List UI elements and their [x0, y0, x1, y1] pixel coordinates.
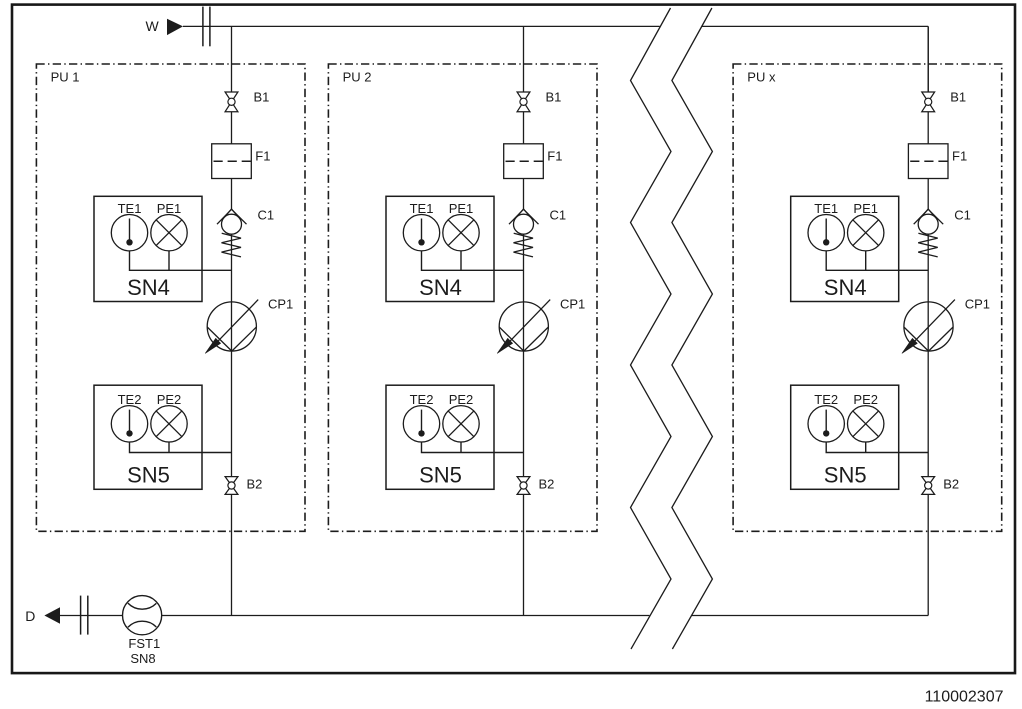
label SN4 (PU x) [824, 275, 867, 300]
svg-text:SN5: SN5 [419, 463, 462, 488]
svg-text:F1: F1 [547, 148, 562, 163]
inlet arrow W [167, 19, 183, 35]
PU 1 main vertical pipe [231, 26, 233, 615]
label B2 (PU 1) [247, 476, 263, 491]
pipe continuation marks at D outlet [81, 596, 88, 635]
unit PU 2 boundary (dash-dot box) [328, 64, 597, 531]
pipeline break zigzag line (left) [631, 8, 672, 649]
SN5 gauge connection wires (PU 1) [130, 442, 232, 453]
label SN8 [130, 651, 155, 666]
svg-text:C1: C1 [258, 208, 275, 223]
svg-text:FST1: FST1 [128, 636, 160, 651]
valve B2 (PU x) [922, 477, 935, 495]
svg-text:B2: B2 [943, 476, 959, 491]
svg-text:B1: B1 [950, 90, 966, 105]
svg-text:D: D [25, 608, 35, 624]
svg-text:TE1: TE1 [118, 201, 142, 216]
label B2 (PU 2) [539, 476, 555, 491]
label B2 (PU x) [943, 476, 959, 491]
thermometer TE2 (PU x) [808, 406, 844, 442]
PU x main vertical pipe [927, 26, 929, 615]
filter F1 (PU 1) [212, 144, 252, 179]
svg-text:TE2: TE2 [410, 392, 434, 407]
instrument box SN4 (PU 1) [94, 196, 202, 301]
pressure gauge PE2 (PU 2) [443, 406, 479, 442]
SN4 gauge connection wires (PU x) [826, 251, 928, 270]
valve B1 (PU 1) [225, 92, 238, 112]
inlet label W [146, 18, 160, 34]
pressure gauge PE2 (PU 1) [151, 406, 187, 442]
svg-text:B1: B1 [254, 90, 270, 105]
svg-text:TE2: TE2 [814, 392, 838, 407]
svg-text:SN5: SN5 [824, 463, 867, 488]
label PU 1 [51, 69, 80, 84]
pump CP1 (PU x) [902, 300, 955, 354]
svg-text:PE1: PE1 [853, 201, 878, 216]
label SN5 (PU 1) [127, 463, 170, 488]
label PE1 (PU 1) [157, 201, 182, 216]
label PU x [747, 69, 776, 84]
svg-text:PE2: PE2 [449, 392, 474, 407]
unit PU 1 boundary (dash-dot box) [36, 64, 305, 531]
instrument box SN5 (PU 1) [94, 385, 202, 489]
svg-text:B2: B2 [539, 476, 555, 491]
svg-text:SN4: SN4 [419, 275, 462, 300]
pump CP1 (PU 2) [497, 300, 550, 354]
svg-text:TE1: TE1 [410, 201, 434, 216]
svg-text:SN8: SN8 [130, 651, 155, 666]
label C1 (PU 1) [258, 208, 275, 223]
svg-text:F1: F1 [952, 148, 967, 163]
valve B1 (PU 2) [517, 92, 530, 112]
pipe continuation marks at W inlet [203, 7, 210, 47]
svg-text:SN5: SN5 [127, 463, 170, 488]
label SN5 (PU x) [824, 463, 867, 488]
label PE2 (PU 1) [157, 392, 182, 407]
instrument box SN5 (PU 2) [386, 385, 494, 489]
label F1 (PU 2) [547, 148, 562, 163]
label SN4 (PU 1) [127, 275, 170, 300]
supply line W (right of break) [702, 25, 928, 27]
SN4 gauge connection wires (PU 2) [422, 251, 524, 270]
label PU 2 [343, 69, 372, 84]
svg-text:F1: F1 [255, 148, 270, 163]
thermometer TE1 (PU 1) [111, 215, 147, 251]
check valve C1 (PU x) [914, 209, 944, 257]
svg-text:SN4: SN4 [824, 275, 867, 300]
valve B1 (PU x) [922, 92, 935, 112]
label B1 (PU 2) [546, 90, 562, 105]
instrument box SN4 (PU x) [791, 196, 899, 301]
svg-text:PE2: PE2 [157, 392, 182, 407]
flow indicator FST1 [123, 596, 162, 635]
svg-text:PE2: PE2 [853, 392, 878, 407]
instrument box SN5 (PU x) [791, 385, 899, 489]
PU 2 main vertical pipe [523, 26, 525, 615]
label TE1 (PU 1) [118, 201, 142, 216]
label PE2 (PU 2) [449, 392, 474, 407]
svg-text:CP1: CP1 [268, 297, 293, 312]
label CP1 (PU 2) [560, 297, 585, 312]
label PE1 (PU x) [853, 201, 878, 216]
label TE2 (PU 1) [118, 392, 142, 407]
label TE1 (PU x) [814, 201, 838, 216]
label CP1 (PU 1) [268, 297, 293, 312]
unit PU x boundary (dash-dot box) [733, 64, 1002, 531]
label B1 (PU 1) [254, 90, 270, 105]
svg-text:C1: C1 [954, 208, 971, 223]
label FST1 [128, 636, 160, 651]
label B1 (PU x) [950, 90, 966, 105]
svg-text:PE1: PE1 [157, 201, 182, 216]
svg-text:PE1: PE1 [449, 201, 474, 216]
label SN4 (PU 2) [419, 275, 462, 300]
SN5 gauge connection wires (PU 2) [422, 442, 524, 453]
pressure gauge PE1 (PU x) [848, 215, 884, 251]
svg-text:CP1: CP1 [965, 297, 990, 312]
drawing number 110002307 [925, 688, 1004, 705]
label CP1 (PU x) [965, 297, 990, 312]
svg-text:B2: B2 [247, 476, 263, 491]
SN4 gauge connection wires (PU 1) [130, 251, 232, 270]
SN5 gauge connection wires (PU x) [826, 442, 928, 453]
svg-text:C1: C1 [550, 208, 567, 223]
svg-text:W: W [146, 18, 160, 34]
svg-text:TE1: TE1 [814, 201, 838, 216]
pump CP1 (PU 1) [205, 300, 258, 354]
label C1 (PU 2) [550, 208, 567, 223]
label C1 (PU x) [954, 208, 971, 223]
supply line W (left of break) [183, 25, 660, 27]
label PE1 (PU 2) [449, 201, 474, 216]
valve B2 (PU 1) [225, 477, 238, 495]
instrument box SN4 (PU 2) [386, 196, 494, 301]
label PE2 (PU x) [853, 392, 878, 407]
filter F1 (PU x) [908, 144, 948, 179]
svg-text:B1: B1 [546, 90, 562, 105]
outlet label D [25, 608, 35, 624]
check valve C1 (PU 2) [509, 209, 539, 257]
check valve C1 (PU 1) [217, 209, 247, 257]
svg-text:SN4: SN4 [127, 275, 170, 300]
pressure gauge PE1 (PU 1) [151, 215, 187, 251]
label TE2 (PU 2) [410, 392, 434, 407]
label F1 (PU 1) [255, 148, 270, 163]
pipeline break zigzag line (right) [672, 8, 713, 649]
right riser pipe corner (PU x feed) [927, 26, 929, 92]
thermometer TE2 (PU 1) [111, 406, 147, 442]
svg-text:TE2: TE2 [118, 392, 142, 407]
pressure gauge PE2 (PU x) [848, 406, 884, 442]
return line D (left of break) [60, 615, 649, 617]
svg-text:CP1: CP1 [560, 297, 585, 312]
label F1 (PU x) [952, 148, 967, 163]
valve B2 (PU 2) [517, 477, 530, 495]
thermometer TE1 (PU 2) [403, 215, 439, 251]
label TE2 (PU x) [814, 392, 838, 407]
return line D (right of break) [692, 615, 929, 617]
pressure gauge PE1 (PU 2) [443, 215, 479, 251]
thermometer TE1 (PU x) [808, 215, 844, 251]
filter F1 (PU 2) [504, 144, 544, 179]
svg-text:PU x: PU x [747, 69, 776, 84]
svg-text:PU 1: PU 1 [51, 69, 80, 84]
svg-text:110002307: 110002307 [925, 688, 1004, 705]
label SN5 (PU 2) [419, 463, 462, 488]
thermometer TE2 (PU 2) [403, 406, 439, 442]
svg-text:PU 2: PU 2 [343, 69, 372, 84]
outlet arrow D [44, 607, 60, 623]
label TE1 (PU 2) [410, 201, 434, 216]
